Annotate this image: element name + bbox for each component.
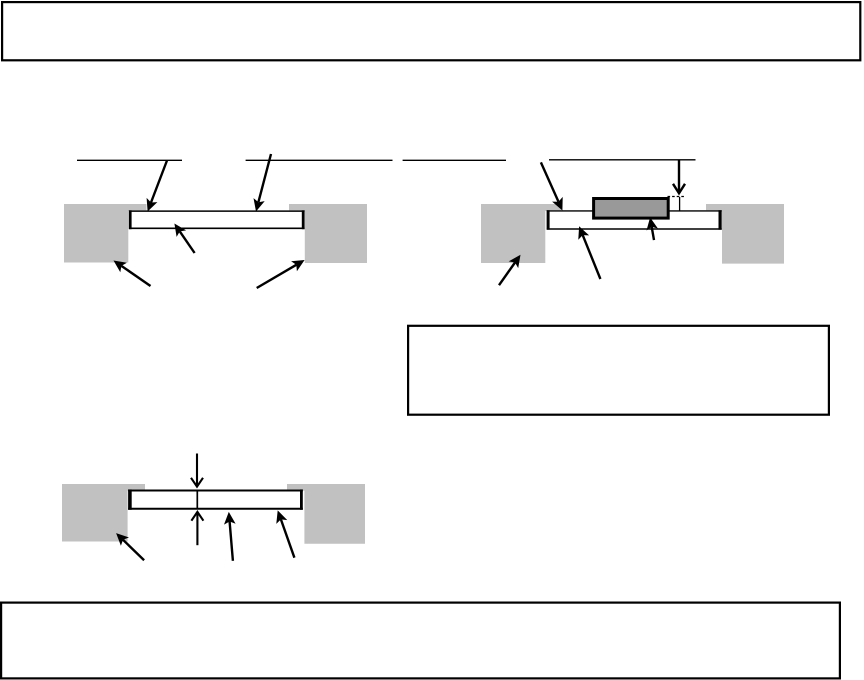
leader arrow to dark element underside <box>647 217 658 240</box>
label line 4 <box>549 159 696 161</box>
leader arrow to pane underside (lower figure) <box>224 512 236 561</box>
right frame block (upper-left figure) <box>289 204 367 263</box>
middle-right text box <box>408 326 829 415</box>
label line 2 <box>246 159 393 161</box>
dimension arrow from label 4 down to dark element top <box>673 161 685 194</box>
left frame block (upper-right figure) <box>481 204 562 263</box>
leader arrow from label 4 to pane top <box>541 162 563 210</box>
dimension dashed reference line <box>668 196 685 198</box>
leader arrow from label 1 to pane top <box>147 161 167 212</box>
glass pane bar (upper-left figure) <box>129 210 305 229</box>
top title text box <box>2 2 860 60</box>
applied dark element on pane <box>594 199 669 219</box>
glass pane bar (upper-right figure) <box>547 210 722 230</box>
left frame block (lower figure) <box>62 484 145 542</box>
dimension extension line down to pane top <box>679 197 681 211</box>
label line 1 <box>77 159 182 161</box>
leader arrow to left frame block <box>114 261 151 287</box>
leader arrow to pane underside (right figure) <box>578 226 600 279</box>
glass pane bar (lower figure) <box>128 489 303 509</box>
leader arrow to left frame block (right figure) <box>499 255 521 286</box>
leader arrow to right frame block corner <box>257 260 305 288</box>
thickness dimension arrow above pane <box>191 454 203 487</box>
bottom caption text box <box>1 603 840 679</box>
label line 3 <box>403 159 506 161</box>
leader arrow from label 2 to pane top <box>254 154 272 212</box>
leader arrow to pane underside <box>174 224 194 254</box>
leader arrow to left frame block (lower figure) <box>116 533 144 560</box>
leader arrow to pane underside right (lower figure) <box>276 510 294 557</box>
thickness dimension arrow below pane <box>191 512 203 545</box>
right frame block (upper-right figure) <box>706 204 784 264</box>
thickness reference line through pane <box>196 491 198 510</box>
right frame block (lower figure) <box>287 484 365 544</box>
left frame block (upper-left figure) <box>64 204 147 263</box>
